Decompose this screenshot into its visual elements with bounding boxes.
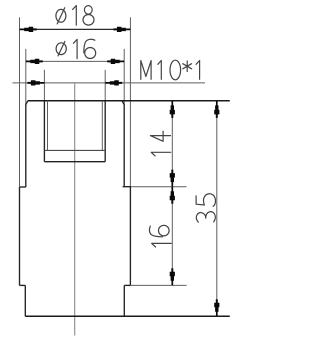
arrow M10 right outside (105, 80, 122, 85)
thread outer wall right (104, 101, 106, 162)
arrow M10 left outside (27, 80, 44, 85)
dimension line 35 vertical (216, 101, 218, 316)
wall dia16 upper-right (123, 104, 125, 187)
arrow 14 top (170, 101, 175, 118)
bottom face line (25, 315, 230, 317)
dimension line M10 (13, 82, 206, 84)
extension line dia16 right (123, 49, 125, 104)
arrow dia16 right (107, 59, 124, 64)
arrow 35 bottom (214, 299, 219, 316)
arrow dia18 left (20, 27, 37, 32)
thread inner line left (47, 101, 49, 151)
text M10*1 (141, 60, 200, 80)
dimension line dia18 (20, 28, 131, 30)
text dia16 (56, 39, 96, 58)
thread depth line A (44, 149, 105, 151)
arrow 35 top (214, 101, 219, 118)
top face line (28, 100, 230, 102)
bottom wall dia16 right (123, 285, 125, 316)
extension line dia16 left (25, 49, 27, 104)
hole bottom line B (44, 161, 105, 163)
step line bottom-left (20, 284, 26, 286)
text 35 (rotated) (196, 194, 215, 222)
centerline (74, 84, 76, 336)
thread inner line right (101, 101, 103, 151)
thread outer wall left (43, 101, 45, 162)
outer wall dia18 right (129, 187, 131, 286)
arrow dia18 right (113, 27, 130, 32)
step line left at y187 (20, 186, 26, 188)
arrow 16 bottom (170, 268, 175, 285)
arrow 14 bottom (170, 170, 175, 187)
arrow dia16 left (26, 59, 43, 64)
arrow 16 top (170, 187, 175, 204)
wall dia16 upper-left (25, 104, 27, 187)
text dia18 (56, 6, 94, 26)
extension line dia18 right (129, 17, 131, 186)
step+extension line bottom-right (124, 284, 130, 286)
text 16 (rotated) (149, 225, 171, 247)
dimension line dia16 (26, 60, 124, 62)
chamfer top-left (26, 101, 28, 105)
extension line dia18 left (19, 17, 21, 186)
outer wall dia18 left (19, 187, 21, 285)
bottom wall dia16 left (24, 285, 26, 316)
dimension line 14/16 vertical (171, 101, 173, 285)
extension line M10 left (43, 70, 45, 101)
step+extension line right at y186.6 (123, 186, 131, 188)
chamfer top-right (122, 101, 124, 105)
text 14 (rotated) (150, 131, 170, 156)
extension line M10 right (104, 70, 106, 101)
